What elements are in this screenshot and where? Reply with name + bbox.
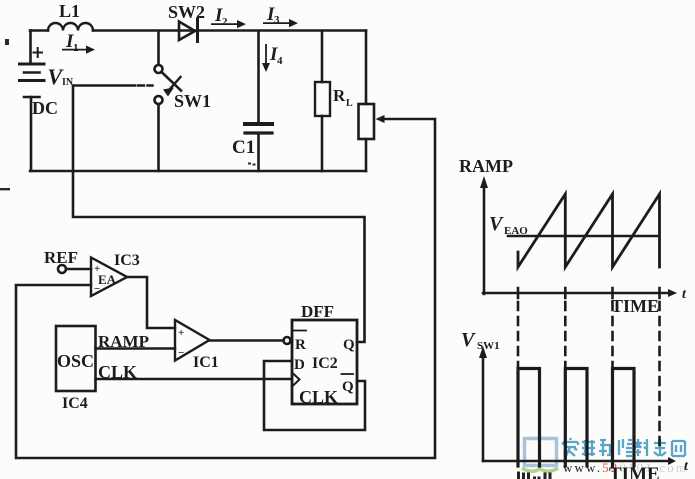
svg-text:1: 1	[73, 42, 79, 54]
svg-text:IC2: IC2	[312, 355, 338, 372]
svg-text:RAMP: RAMP	[98, 332, 149, 351]
svg-text:L: L	[346, 98, 353, 109]
svg-text:DC: DC	[32, 98, 58, 118]
svg-text:RAMP: RAMP	[459, 156, 513, 176]
svg-text:−: −	[178, 347, 184, 359]
svg-text:V: V	[489, 213, 504, 235]
svg-text:TIME: TIME	[609, 464, 660, 479]
svg-text:C1: C1	[232, 137, 255, 158]
svg-text:V: V	[461, 329, 476, 351]
svg-text:SW1: SW1	[174, 91, 211, 111]
svg-text:L1: L1	[59, 1, 80, 21]
svg-text:IC4: IC4	[62, 395, 88, 412]
svg-text:+: +	[178, 327, 184, 339]
svg-text:R: R	[295, 337, 306, 353]
svg-text:R: R	[333, 86, 346, 105]
svg-text:Q: Q	[342, 379, 354, 395]
svg-text:2: 2	[222, 16, 228, 28]
svg-text:SW2: SW2	[168, 2, 205, 22]
svg-text:IC3: IC3	[114, 252, 140, 269]
svg-text:EA: EA	[98, 272, 117, 287]
svg-text:D: D	[294, 357, 305, 373]
svg-text:3: 3	[274, 14, 280, 26]
svg-text:EAO: EAO	[504, 225, 528, 237]
svg-text:TIME: TIME	[611, 296, 659, 316]
svg-text:Q: Q	[343, 337, 355, 353]
svg-text:CLK: CLK	[98, 362, 137, 382]
svg-text:SW1: SW1	[477, 340, 500, 352]
svg-text:OSC: OSC	[57, 351, 94, 371]
svg-text:−: −	[94, 283, 100, 295]
svg-text:IC1: IC1	[193, 354, 219, 371]
svg-text:REF: REF	[44, 248, 78, 267]
svg-text:4: 4	[277, 55, 283, 67]
svg-text:DFF: DFF	[301, 302, 334, 321]
svg-text:CLK: CLK	[299, 387, 338, 407]
svg-text:IN: IN	[62, 77, 74, 88]
